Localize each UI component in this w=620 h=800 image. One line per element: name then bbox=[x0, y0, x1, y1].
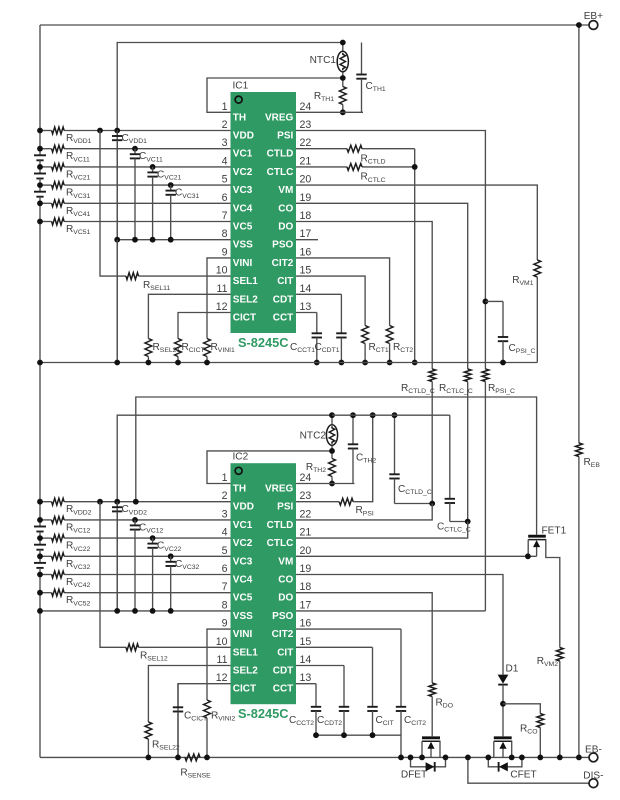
wire: IC1 pin 14 drop bbox=[296, 293, 341, 295]
battery cell B3 bbox=[39, 185, 41, 192]
wire: EB+ right vertical bbox=[578, 25, 580, 443]
svg-text:CICT: CICT bbox=[233, 313, 256, 324]
wire: CICT2 (pin 12) bbox=[178, 684, 231, 758]
svg-text:VC3: VC3 bbox=[233, 556, 253, 567]
svg-text:PSI: PSI bbox=[277, 502, 293, 513]
wire: VC51 row (pin 7) bbox=[40, 221, 52, 223]
wire: bus1 (IC1 VSS net) bbox=[40, 362, 537, 364]
svg-text:CIT: CIT bbox=[277, 276, 293, 287]
wire: FET1 gate feed from VDD2 bbox=[136, 397, 537, 535]
svg-text:9: 9 bbox=[222, 618, 228, 630]
resistor R_CTLC_C bbox=[464, 369, 471, 382]
capacitor C_PSI_C bbox=[485, 300, 503, 302]
junction: PSI1/C_PSI_C bbox=[483, 299, 489, 305]
svg-text:CFET: CFET bbox=[510, 770, 536, 781]
svg-text:SEL2: SEL2 bbox=[233, 666, 258, 677]
resistor R_PSI_C bbox=[482, 369, 489, 382]
resistor R_EB bbox=[576, 443, 583, 457]
svg-text:DO: DO bbox=[278, 593, 293, 604]
junction dots bus1 bbox=[37, 360, 43, 366]
wire: VC12 row (pin 3) bbox=[40, 519, 52, 521]
capacitor C_CIT bbox=[372, 647, 374, 707]
wire: CO1 (pin 19) bbox=[296, 203, 468, 369]
svg-text:11: 11 bbox=[217, 283, 228, 295]
resistor R_VC21 bbox=[52, 164, 65, 171]
svg-text:VSS: VSS bbox=[233, 611, 253, 622]
junction dots bottom rail right bbox=[537, 755, 543, 761]
resistor R_VC41 bbox=[52, 200, 65, 207]
svg-text:VREG: VREG bbox=[265, 484, 294, 495]
svg-text:PSO: PSO bbox=[272, 240, 293, 251]
svg-text:VM: VM bbox=[278, 185, 293, 196]
IC U2 body (S-8245C) bbox=[231, 463, 297, 704]
capacitor C_CTLD_C bbox=[394, 415, 396, 474]
svg-text:DO: DO bbox=[278, 222, 293, 233]
resistor R_CICT bbox=[175, 339, 182, 357]
resistor R_DO bbox=[429, 683, 436, 697]
wire: VINI2 (pin 9) bbox=[207, 629, 231, 700]
junction rail VC31 bbox=[37, 182, 43, 188]
resistor R_SENSE bbox=[185, 754, 200, 761]
svg-text:CTLC: CTLC bbox=[267, 167, 294, 178]
capacitor C_CTLC_C bbox=[449, 415, 451, 499]
wire: VDD2 wire to C_CTLC_C bbox=[332, 414, 450, 416]
svg-text:16: 16 bbox=[300, 618, 312, 630]
svg-text:CIT2: CIT2 bbox=[272, 629, 294, 640]
resistor R_VDD1 bbox=[52, 127, 65, 134]
resistor R_SEL12 bbox=[126, 644, 139, 651]
wire: IC1 pin 16 drop bbox=[296, 258, 390, 326]
svg-text:VINI: VINI bbox=[233, 629, 253, 640]
wire: PSI1 (pin 23) bbox=[296, 131, 485, 370]
resistor R_CTLD bbox=[347, 145, 362, 152]
wire: VSS2 bus (pin 8) bbox=[40, 610, 231, 612]
wire: CTLD2 (pin 22) bbox=[296, 504, 432, 520]
svg-text:VC2: VC2 bbox=[233, 538, 253, 549]
svg-text:EB+: EB+ bbox=[584, 11, 603, 22]
wire: CICT1 (pin 12) bbox=[178, 313, 231, 339]
svg-text:20: 20 bbox=[300, 545, 312, 557]
wire: DO1 (pin 18) bbox=[296, 222, 432, 370]
svg-text:FET1: FET1 bbox=[542, 526, 567, 537]
svg-text:6: 6 bbox=[222, 192, 228, 204]
svg-text:19: 19 bbox=[300, 563, 312, 575]
svg-text:21: 21 bbox=[300, 527, 312, 539]
junction dots VDD1 row bbox=[37, 128, 43, 134]
battery cell B5 bbox=[39, 538, 41, 545]
svg-text:10: 10 bbox=[216, 265, 228, 277]
resistor R_VC52 bbox=[52, 589, 65, 596]
capacitor C_CICT bbox=[177, 684, 179, 708]
wire: DIS- tap bbox=[468, 757, 589, 783]
resistor R_VM2 bbox=[556, 648, 563, 662]
svg-text:4: 4 bbox=[222, 527, 228, 539]
terminal DIS- bbox=[589, 779, 598, 788]
svg-text:EB-: EB- bbox=[585, 745, 602, 756]
wire: left battery rail (top segment) bbox=[39, 25, 41, 131]
svg-text:VC1: VC1 bbox=[233, 520, 253, 531]
capacitor C_CIT2 bbox=[400, 629, 402, 707]
wire: VC21 row (pin 4) bbox=[40, 166, 52, 168]
junction dots VDD2 row bbox=[37, 499, 43, 505]
wire: VINI1 (pin 9) bbox=[207, 258, 231, 339]
wire: SEL2 (pin 11) bbox=[148, 294, 230, 338]
svg-text:22: 22 bbox=[300, 508, 312, 520]
wire: IC1 pin 13 drop bbox=[296, 312, 317, 314]
svg-text:CO: CO bbox=[278, 575, 293, 586]
wire: VDD1 vertical feed bbox=[117, 43, 343, 363]
svg-text:1: 1 bbox=[222, 101, 228, 113]
wire: VC41 row (pin 6) bbox=[40, 202, 52, 204]
svg-text:VC4: VC4 bbox=[233, 575, 253, 586]
capacitor C_VC31 bbox=[170, 185, 172, 191]
svg-text:D1: D1 bbox=[506, 664, 519, 675]
svg-text:IC1: IC1 bbox=[233, 81, 249, 92]
wire: IC2 pin 15 drop bbox=[296, 646, 373, 648]
wire: CTLD1 (pin 22) bbox=[296, 148, 347, 150]
svg-text:DIS-: DIS- bbox=[583, 771, 603, 782]
svg-text:CTLD: CTLD bbox=[267, 520, 294, 531]
wire: D1 to CFET gate bbox=[502, 704, 504, 737]
svg-text:9: 9 bbox=[222, 246, 228, 258]
svg-text:6: 6 bbox=[222, 563, 228, 575]
svg-text:18: 18 bbox=[300, 581, 312, 593]
capacitor C_CCT1 bbox=[316, 313, 318, 334]
svg-text:VC2: VC2 bbox=[233, 167, 253, 178]
wire: SEL1 pullup (pin 10) bbox=[100, 131, 126, 277]
resistor R_VINI1 bbox=[204, 339, 211, 357]
svg-text:2: 2 bbox=[222, 119, 228, 131]
resistor R_PSI bbox=[339, 498, 353, 505]
transistor FET1 bbox=[528, 535, 546, 538]
wire: PSO1 stub (pin 17) bbox=[296, 239, 318, 241]
svg-text:16: 16 bbox=[300, 246, 312, 258]
junction rail VC12 bbox=[37, 517, 43, 523]
junction: EB+ rail bbox=[576, 22, 582, 28]
wire: VC52 row (pin 7) bbox=[40, 592, 52, 594]
svg-text:CCT: CCT bbox=[273, 684, 294, 695]
svg-text:19: 19 bbox=[300, 192, 312, 204]
wire: VC11 row (pin 3) bbox=[40, 148, 52, 150]
wire: PSO2 (pin 17) bbox=[296, 610, 485, 612]
svg-text:CO: CO bbox=[278, 203, 293, 214]
svg-text:4: 4 bbox=[222, 155, 228, 167]
capacitor C_VC21 bbox=[152, 167, 154, 173]
resistor R_VC42 bbox=[52, 571, 65, 578]
wire: CTLC2 (pin 21) bbox=[296, 522, 468, 539]
svg-text:PSI: PSI bbox=[277, 131, 293, 142]
wire: C_VDD1 column down to bus1 bbox=[116, 240, 118, 363]
svg-text:CCT: CCT bbox=[273, 313, 294, 324]
capacitor C_VDD2 bbox=[116, 502, 118, 508]
svg-text:VC5: VC5 bbox=[233, 593, 253, 604]
wire: EB- bottom rail bbox=[40, 756, 589, 758]
svg-text:12: 12 bbox=[216, 672, 228, 684]
svg-text:VC4: VC4 bbox=[233, 203, 253, 214]
svg-text:24: 24 bbox=[300, 472, 312, 484]
wire: IC2 pin 14 drop bbox=[296, 665, 344, 667]
wire: IC2 TH pin 1 to thermistor node bbox=[207, 451, 332, 484]
capacitor C_VDD1 bbox=[116, 131, 118, 137]
battery cell B4 bbox=[39, 520, 41, 527]
resistor R_VINI2 bbox=[204, 700, 211, 718]
svg-text:VDD: VDD bbox=[233, 131, 254, 142]
svg-text:17: 17 bbox=[300, 228, 312, 240]
IC U1 body (S-8245C) bbox=[231, 92, 297, 333]
wire: VM2 / FET1 source (pin 20) bbox=[296, 555, 537, 557]
svg-text:CIT2: CIT2 bbox=[272, 258, 294, 269]
wire: VREG2 (pin 24) bbox=[296, 483, 355, 485]
svg-text:13: 13 bbox=[300, 301, 312, 313]
resistor R_SEL11 bbox=[126, 273, 139, 280]
battery cell B1 bbox=[39, 149, 41, 156]
svg-text:VM: VM bbox=[278, 556, 293, 567]
resistor R_CTLD_C bbox=[429, 369, 436, 382]
svg-text:CIT: CIT bbox=[277, 647, 293, 658]
resistor R_VC51 bbox=[52, 218, 65, 225]
svg-text:7: 7 bbox=[222, 581, 228, 593]
wire: CTLC1 (pin 21) bbox=[296, 166, 347, 168]
svg-text:VDD: VDD bbox=[233, 502, 254, 513]
svg-text:13: 13 bbox=[300, 672, 312, 684]
svg-text:VC1: VC1 bbox=[233, 149, 253, 160]
capacitor C_VC32 bbox=[170, 556, 172, 562]
svg-text:1: 1 bbox=[222, 472, 228, 484]
capacitor C_CDT1 bbox=[340, 294, 342, 333]
resistor R_VDD2 bbox=[52, 498, 65, 505]
wire: VDD2 vertical feed bbox=[117, 415, 332, 611]
svg-text:12: 12 bbox=[216, 301, 228, 313]
wire: VC31 row (pin 5) bbox=[40, 184, 52, 186]
resistor R_VC31 bbox=[52, 182, 65, 189]
wire: IC1 TH pin 1 to thermistor node bbox=[207, 78, 343, 112]
resistor R_VM1 bbox=[534, 260, 541, 277]
svg-text:14: 14 bbox=[300, 654, 312, 666]
battery cell B2 bbox=[39, 167, 41, 174]
diode D1 bbox=[498, 675, 509, 684]
wire: SEL2 (pin 11) bbox=[148, 666, 230, 723]
transistor DFET bbox=[422, 736, 440, 739]
capacitor C_VC12 bbox=[134, 520, 136, 526]
svg-text:21: 21 bbox=[300, 155, 312, 167]
resistor R_CO bbox=[503, 704, 540, 714]
svg-text:23: 23 bbox=[300, 119, 312, 131]
resistor R_TH2 bbox=[331, 451, 333, 459]
svg-text:S-8245C: S-8245C bbox=[238, 335, 289, 350]
svg-text:TH: TH bbox=[233, 112, 246, 123]
svg-text:VC3: VC3 bbox=[233, 185, 253, 196]
svg-text:24: 24 bbox=[300, 101, 312, 113]
svg-text:7: 7 bbox=[222, 210, 228, 222]
resistor R_CTLC bbox=[347, 164, 362, 171]
wire: IC2 pin 16 drop bbox=[296, 628, 401, 630]
terminal EB+ bbox=[589, 21, 598, 30]
wire: VDD1 row (pin 2) bbox=[40, 130, 52, 132]
svg-text:23: 23 bbox=[300, 490, 312, 502]
wire: VC32 row (pin 5) bbox=[40, 555, 52, 557]
svg-text:VINI: VINI bbox=[233, 258, 253, 269]
junction rail VC32 bbox=[37, 553, 43, 559]
svg-text:VREG: VREG bbox=[265, 112, 294, 123]
svg-text:VC5: VC5 bbox=[233, 222, 253, 233]
svg-text:SEL1: SEL1 bbox=[233, 276, 258, 287]
transistor CFET bbox=[494, 736, 512, 739]
wire: VM1 (pin 20) bbox=[296, 185, 537, 260]
wire: left rail mid segment bbox=[39, 131, 41, 149]
junction rail VC22 bbox=[37, 535, 43, 541]
junction rail VC41 bbox=[37, 200, 43, 206]
junction dots bottom rail left bbox=[146, 755, 152, 761]
svg-text:CICT: CICT bbox=[233, 684, 256, 695]
thermistor NTC2 bbox=[331, 415, 333, 425]
junction rail VC52 bbox=[37, 590, 43, 596]
resistor R_TH1 bbox=[342, 78, 344, 87]
wire: CTLD/CTLC join to bus1 bbox=[414, 149, 416, 363]
svg-text:SEL1: SEL1 bbox=[233, 647, 258, 658]
wire: VC22 row (pin 4) bbox=[40, 537, 52, 539]
battery cell B6 bbox=[39, 556, 41, 563]
svg-text:5: 5 bbox=[222, 174, 228, 186]
wire: timer cap mini-bus bbox=[316, 735, 401, 757]
wire: VDD2 row (pin 2) bbox=[40, 501, 52, 503]
svg-text:14: 14 bbox=[300, 283, 312, 295]
svg-text:NTC2: NTC2 bbox=[300, 431, 327, 442]
resistor R_CT1 bbox=[362, 326, 369, 344]
svg-text:20: 20 bbox=[300, 174, 312, 186]
capacitor C_TH2 bbox=[352, 415, 354, 444]
resistor R_SEL21 bbox=[145, 339, 152, 357]
svg-text:2: 2 bbox=[222, 490, 228, 502]
wire: IC1 pin 15 drop bbox=[296, 276, 365, 325]
svg-text:CDT: CDT bbox=[273, 294, 294, 305]
wire: PSI2 (pin 23) bbox=[296, 501, 339, 503]
thermistor NTC1 bbox=[342, 43, 344, 52]
svg-text:8: 8 bbox=[222, 228, 228, 240]
capacitor C_VC11 bbox=[134, 149, 136, 155]
wire: IC2 pin 13 drop bbox=[296, 683, 316, 685]
svg-text:22: 22 bbox=[300, 137, 312, 149]
svg-text:DFET: DFET bbox=[401, 770, 427, 781]
terminal EB- bbox=[589, 753, 598, 762]
resistor R_CT2 bbox=[386, 326, 393, 344]
capacitor C_CDT2 bbox=[343, 666, 345, 707]
resistor R_SEL22 bbox=[145, 722, 152, 739]
svg-text:CDT: CDT bbox=[273, 666, 294, 677]
wire: CO2 (pin 19) to D1 bbox=[296, 575, 503, 669]
svg-text:CTLD: CTLD bbox=[267, 149, 294, 160]
resistor R_VC32 bbox=[52, 553, 65, 560]
wire: SEL1 pullup (pin 10) bbox=[100, 502, 126, 648]
resistor R_VC12 bbox=[52, 517, 65, 524]
svg-text:PSO: PSO bbox=[272, 611, 293, 622]
svg-text:VSS: VSS bbox=[233, 240, 253, 251]
svg-text:3: 3 bbox=[222, 508, 228, 520]
svg-text:11: 11 bbox=[217, 654, 228, 666]
wire: VC42 row (pin 6) bbox=[40, 574, 52, 576]
svg-text:15: 15 bbox=[300, 265, 312, 277]
junction rail VC42 bbox=[37, 572, 43, 578]
svg-text:5: 5 bbox=[222, 545, 228, 557]
svg-text:15: 15 bbox=[300, 636, 312, 648]
capacitor C_CCT2 bbox=[315, 684, 317, 707]
wire: VREG1 (pin 24) bbox=[296, 111, 363, 113]
wire: VSS1 cap bus (pin 8) bbox=[117, 239, 230, 241]
svg-text:SEL2: SEL2 bbox=[233, 294, 258, 305]
wire: DO2 (pin 18) to R_DO bbox=[296, 593, 432, 683]
svg-text:8: 8 bbox=[222, 599, 228, 611]
svg-text:18: 18 bbox=[300, 210, 312, 222]
svg-text:IC2: IC2 bbox=[233, 452, 249, 463]
capacitor C_TH1 bbox=[361, 43, 363, 75]
svg-text:3: 3 bbox=[222, 137, 228, 149]
resistor R_VC11 bbox=[52, 145, 65, 152]
junction rail VC51 bbox=[37, 219, 43, 225]
svg-text:17: 17 bbox=[300, 599, 312, 611]
svg-text:CTLC: CTLC bbox=[267, 538, 294, 549]
svg-text:S-8245C: S-8245C bbox=[238, 706, 289, 721]
wire: EB+ top rail bbox=[40, 24, 589, 26]
capacitor C_VC22 bbox=[152, 538, 154, 544]
junction rail VC21 bbox=[37, 164, 43, 170]
wire: left rail lower segment bbox=[39, 502, 41, 520]
svg-text:10: 10 bbox=[216, 636, 228, 648]
resistor R_VC22 bbox=[52, 535, 65, 542]
svg-text:TH: TH bbox=[233, 484, 246, 495]
svg-text:NTC1: NTC1 bbox=[310, 55, 337, 66]
junction rail VC11 bbox=[37, 146, 43, 152]
